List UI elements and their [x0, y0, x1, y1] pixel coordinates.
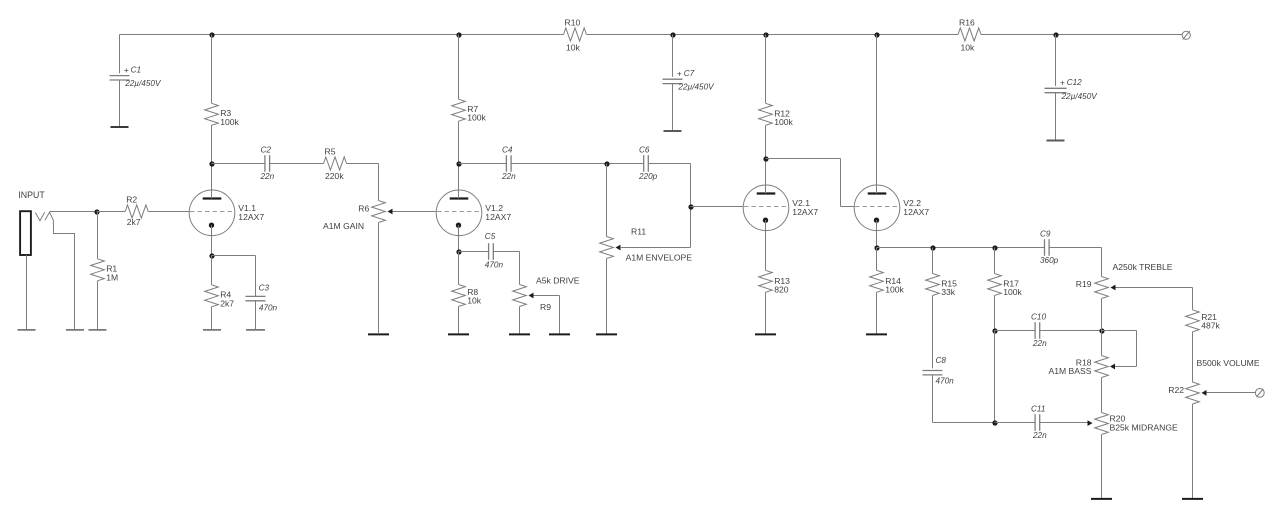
svg-text:470n: 470n	[485, 260, 504, 269]
svg-text:INPUT: INPUT	[18, 190, 45, 200]
node R3-C2	[209, 161, 214, 166]
svg-text:220k: 220k	[325, 171, 344, 181]
wire rail to R3	[211, 35, 213, 104]
node rail-R7	[456, 32, 461, 37]
node R7-C4	[456, 161, 461, 166]
svg-text:C6: C6	[639, 145, 650, 154]
svg-text:22n: 22n	[1032, 339, 1047, 348]
label INPUT	[18, 190, 45, 200]
node rail-R3	[209, 32, 214, 37]
wire R12 to plate	[765, 125, 767, 185]
wire node to C4	[459, 163, 507, 165]
ground R1	[89, 329, 107, 331]
wire C1 top lead	[119, 35, 121, 74]
wire C5 to R9	[493, 252, 519, 285]
wire R22 to ground	[1192, 404, 1194, 499]
svg-text:220p: 220p	[638, 172, 658, 181]
wire rail to C7	[672, 35, 674, 77]
svg-text:R19: R19	[1076, 279, 1092, 289]
svg-text:R5: R5	[325, 147, 336, 157]
wire C10 right	[1040, 330, 1102, 332]
wire R6 wiper to V1.2 grid	[393, 211, 437, 213]
terminal output	[1255, 389, 1264, 398]
capacitor C11	[1031, 404, 1047, 440]
node rail-C12	[1053, 32, 1058, 37]
wire R3 to plate	[211, 125, 213, 190]
wire to V2.2 grid	[766, 159, 855, 207]
svg-text:22n: 22n	[1032, 431, 1047, 440]
wire R19 to node	[1101, 299, 1103, 331]
resistor R7	[452, 99, 487, 123]
tube V2.1 12AX7	[743, 185, 818, 231]
wire R6 to ground	[378, 223, 380, 334]
ground jack sleeve	[18, 329, 36, 331]
wire R2 to V1.1 grid	[148, 211, 190, 213]
svg-text:R6: R6	[358, 203, 369, 213]
tube V1.2 12AX7	[436, 190, 511, 236]
ground R6	[368, 333, 389, 335]
svg-text:A250k TREBLE: A250k TREBLE	[1113, 262, 1173, 272]
wire cathode to C5	[459, 251, 489, 253]
wire R7 to plate	[458, 121, 460, 190]
node R15 top	[930, 245, 935, 250]
svg-text:R2: R2	[126, 195, 137, 205]
wire R20 to ground	[1101, 435, 1103, 499]
svg-text:22µ/450V: 22µ/450V	[677, 83, 715, 92]
node input	[94, 209, 99, 214]
node R17-C10	[992, 328, 997, 333]
svg-text:12AX7: 12AX7	[485, 212, 511, 222]
wire rail to R7	[458, 35, 460, 100]
svg-text:100k: 100k	[220, 117, 239, 127]
svg-text:100k: 100k	[774, 117, 793, 127]
node C8-C11	[992, 420, 997, 425]
wire rail to V2.2 plate	[876, 35, 878, 186]
potentiometer R18 A1M BASS	[1049, 331, 1116, 378]
svg-text:A1M BASS: A1M BASS	[1049, 366, 1092, 376]
resistor R13	[759, 270, 790, 334]
resistor R14	[870, 248, 905, 335]
svg-text:1M: 1M	[106, 272, 118, 282]
wire V1.2 cathode	[458, 236, 460, 252]
svg-text:22µ/450V: 22µ/450V	[124, 79, 162, 88]
capacitor C7	[663, 68, 716, 130]
ground C7	[664, 130, 682, 132]
svg-text:C9: C9	[1040, 229, 1051, 238]
capacitor C10	[1031, 312, 1047, 348]
ground R20	[1091, 498, 1112, 500]
svg-text:100k: 100k	[1003, 287, 1022, 297]
svg-text:22n: 22n	[260, 172, 275, 181]
resistor R2	[97, 195, 149, 227]
ground R8	[448, 333, 469, 335]
potentiometer R20 B25k MIDRANGE	[1088, 413, 1179, 435]
resistor R1	[91, 212, 118, 330]
wire rail to C12	[1055, 35, 1057, 87]
tube V1.1 12AX7	[189, 190, 264, 236]
svg-text:R22: R22	[1168, 385, 1184, 395]
svg-text:R9: R9	[540, 302, 551, 312]
wire R18 to R20	[1101, 378, 1103, 413]
ground C3	[246, 329, 265, 331]
wire R5 to R6	[347, 164, 379, 201]
svg-text:+: +	[1060, 78, 1065, 88]
svg-text:A5k DRIVE: A5k DRIVE	[536, 276, 580, 286]
connector J1 input jack	[20, 211, 74, 329]
svg-text:C2: C2	[261, 145, 272, 154]
ground R4	[203, 329, 221, 331]
svg-text:C3: C3	[259, 284, 270, 293]
svg-text:C7: C7	[684, 69, 695, 78]
node V2.1 grid branch	[688, 204, 693, 209]
capacitor C6	[638, 145, 658, 181]
node rail-R12	[763, 32, 768, 37]
svg-text:C5: C5	[485, 232, 496, 241]
potentiometer R22 B500k VOLUME	[1168, 382, 1206, 404]
svg-text:2k7: 2k7	[127, 217, 141, 227]
svg-text:10k: 10k	[566, 42, 581, 52]
svg-text:A1M ENVELOPE: A1M ENVELOPE	[626, 253, 693, 263]
label B500k VOLUME	[1197, 358, 1260, 368]
svg-text:100k: 100k	[885, 285, 904, 295]
wire R22 wiper to output	[1207, 392, 1256, 394]
resistor R17	[988, 248, 1023, 331]
node R12-V2.1	[763, 156, 768, 161]
resistor R10	[564, 18, 587, 53]
node R17 top	[992, 245, 997, 250]
wire to R11 wiper	[621, 247, 691, 249]
wire R21 to R22	[1192, 332, 1194, 382]
resistor R4	[205, 256, 235, 330]
ground R9 wiper	[549, 333, 570, 335]
svg-text:360p: 360p	[1040, 256, 1059, 265]
svg-text:C4: C4	[502, 145, 513, 154]
svg-text:12AX7: 12AX7	[238, 212, 264, 222]
resistor R15	[926, 248, 957, 369]
wire R17 node down	[994, 331, 996, 423]
ground R22	[1182, 498, 1203, 500]
capacitor C4	[501, 145, 516, 181]
svg-text:470n: 470n	[936, 377, 955, 386]
node rail-C7	[670, 32, 675, 37]
svg-text:C1: C1	[131, 65, 141, 74]
wire jack to node	[50, 211, 97, 213]
wire B+ rail	[120, 34, 1182, 36]
svg-text:B500k VOLUME: B500k VOLUME	[1197, 358, 1260, 368]
tube V2.2 12AX7	[854, 185, 929, 231]
capacitor C3	[246, 284, 278, 330]
capacitor C1	[110, 65, 162, 127]
node V1.2 cathode	[456, 249, 461, 254]
svg-text:470n: 470n	[259, 304, 278, 313]
ground C12	[1047, 140, 1065, 142]
wire R11 to ground	[606, 259, 608, 335]
wire cathode to C3	[212, 256, 256, 297]
svg-text:2k7: 2k7	[220, 298, 234, 308]
ground R13	[755, 333, 776, 335]
wire node to C2	[212, 163, 265, 165]
wire C10 left	[995, 330, 1035, 332]
svg-text:R16: R16	[959, 18, 975, 28]
svg-text:A1M GAIN: A1M GAIN	[323, 221, 364, 231]
ground R11	[596, 333, 617, 335]
wire V1.1 cathode	[211, 236, 213, 256]
svg-text:12AX7: 12AX7	[903, 207, 929, 217]
node C4-C6-R11	[604, 161, 609, 166]
potentiometer R9 A5k DRIVE	[513, 276, 580, 312]
svg-text:B25k MIDRANGE: B25k MIDRANGE	[1110, 423, 1179, 433]
wire R19 wiper to R21	[1116, 288, 1193, 310]
svg-text:820: 820	[774, 285, 789, 295]
svg-text:C12: C12	[1067, 78, 1082, 87]
svg-text:100k: 100k	[467, 113, 486, 123]
svg-text:C10: C10	[1031, 312, 1046, 321]
wire rail to R12	[765, 35, 767, 104]
potentiometer R19 A250k TREBLE	[1076, 262, 1173, 298]
ground jack ring	[66, 329, 84, 331]
node C10-R19-R18	[1099, 328, 1104, 333]
wire C9 to R19	[1049, 248, 1101, 277]
wire R18 wiper loop	[1102, 331, 1137, 367]
capacitor C8	[923, 356, 955, 423]
terminal B+ out	[1182, 31, 1190, 40]
svg-text:10k: 10k	[961, 42, 976, 52]
wire R9 to ground	[519, 307, 521, 335]
svg-text:+: +	[677, 68, 682, 78]
wire V2.2 cathode	[876, 231, 878, 248]
ground C1	[111, 126, 129, 128]
resistor R12	[759, 103, 794, 127]
wire V2.1 cathode	[765, 231, 767, 271]
svg-text:12AX7: 12AX7	[792, 207, 818, 217]
wire C6 to corner	[649, 164, 691, 248]
ground R9	[509, 333, 530, 335]
svg-text:C8: C8	[936, 356, 947, 365]
svg-text:33k: 33k	[941, 287, 956, 297]
wire C11 left	[995, 422, 1035, 424]
resistor R5	[324, 147, 347, 182]
resistor R21	[1186, 310, 1221, 382]
resistor R16	[958, 18, 981, 53]
svg-text:R10: R10	[565, 18, 581, 28]
svg-text:+: +	[124, 65, 129, 75]
node V2.2 cathode	[874, 245, 879, 250]
potentiometer R11 A1M ENVELOPE	[600, 164, 693, 263]
node rail-V2.2	[874, 32, 879, 37]
wire C11 to R20 wiper	[1040, 422, 1088, 424]
capacitor C9	[1040, 229, 1059, 265]
svg-text:R11: R11	[631, 226, 646, 236]
wire C4 to node	[511, 163, 643, 165]
svg-text:22n: 22n	[501, 172, 516, 181]
resistor R3	[205, 103, 240, 127]
svg-text:C11: C11	[1031, 404, 1045, 413]
wire C8 to C11 row	[933, 422, 1035, 424]
svg-text:10k: 10k	[467, 296, 482, 306]
wire tone stack top	[877, 247, 1045, 249]
wire to V2.1 grid	[691, 206, 744, 208]
capacitor C12	[1045, 78, 1099, 141]
wire R9 wiper to ground	[534, 296, 560, 335]
potentiometer R6 A1M GAIN	[323, 201, 392, 231]
svg-text:22µ/450V: 22µ/450V	[1061, 92, 1099, 101]
node V1.1 cathode	[209, 253, 214, 258]
resistor R8	[452, 252, 482, 335]
wire C2 to R5	[270, 163, 324, 165]
ground R14	[866, 333, 887, 335]
capacitor C2	[260, 145, 275, 181]
svg-text:487k: 487k	[1201, 321, 1220, 331]
capacitor C5	[485, 232, 504, 270]
